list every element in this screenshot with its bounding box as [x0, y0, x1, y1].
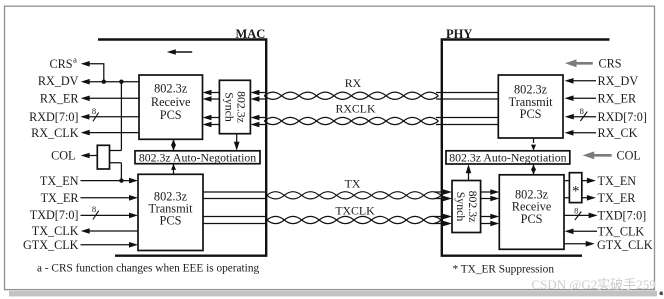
svg-text:RXD[7:0]: RXD[7:0]	[598, 110, 647, 124]
svg-text:TX_EN: TX_EN	[598, 174, 637, 188]
svg-text:*: *	[572, 184, 580, 200]
svg-text:802.3z: 802.3z	[154, 81, 188, 95]
svg-text:a - CRS function changes when: a - CRS function changes when EEE is ope…	[37, 262, 259, 274]
svg-text:MAC: MAC	[235, 27, 265, 41]
svg-text:GTX_CLK: GTX_CLK	[23, 238, 79, 252]
svg-text:TX: TX	[345, 177, 361, 191]
svg-text:TX_EN: TX_EN	[40, 174, 79, 188]
svg-text:TX_ER: TX_ER	[41, 191, 80, 205]
svg-text:TX_CLK: TX_CLK	[598, 225, 645, 239]
svg-text:TXCLK: TXCLK	[335, 204, 375, 218]
svg-text:CRS: CRS	[599, 56, 622, 70]
svg-text:RXD[7:0]: RXD[7:0]	[29, 110, 78, 124]
svg-text:802.3zSynch: 802.3zSynch	[454, 191, 480, 223]
svg-text:PCS: PCS	[160, 214, 182, 228]
svg-text:a: a	[73, 55, 77, 65]
svg-text:802.3z Auto-Negotiation: 802.3z Auto-Negotiation	[449, 150, 566, 164]
svg-text:CSDN @G2实破手259: CSDN @G2实破手259	[532, 277, 656, 292]
svg-text:TXD[7:0]: TXD[7:0]	[598, 209, 647, 223]
svg-text:RXCLK: RXCLK	[336, 102, 376, 116]
svg-text:802.3zSynch: 802.3zSynch	[222, 91, 248, 123]
svg-text:PCS: PCS	[521, 212, 543, 226]
svg-text:TX_ER: TX_ER	[598, 191, 637, 205]
svg-text:RX_DV: RX_DV	[38, 74, 79, 88]
svg-text:RX_ER: RX_ER	[40, 92, 79, 106]
svg-text:CRS: CRS	[49, 57, 72, 71]
svg-text:GTX_CLK: GTX_CLK	[597, 238, 653, 252]
svg-text:PCS: PCS	[160, 108, 182, 122]
svg-text:TXD[7:0]: TXD[7:0]	[30, 208, 79, 222]
svg-text:8: 8	[92, 204, 96, 214]
svg-text:RX_ER: RX_ER	[598, 91, 637, 105]
svg-text:8: 8	[92, 106, 96, 116]
svg-text:RX_DV: RX_DV	[598, 74, 639, 88]
svg-text:802.3z Auto-Negotiation: 802.3z Auto-Negotiation	[139, 150, 256, 164]
svg-text:COL: COL	[617, 149, 641, 163]
svg-text:RX_CK: RX_CK	[598, 126, 638, 140]
svg-text:* TX_ER Suppression: * TX_ER Suppression	[453, 264, 555, 276]
svg-text:8: 8	[574, 206, 578, 216]
svg-text:8: 8	[580, 106, 584, 116]
svg-text:RX: RX	[345, 76, 362, 90]
svg-text:COL: COL	[51, 149, 75, 163]
svg-text:PCS: PCS	[520, 107, 542, 121]
svg-text:TX_CLK: TX_CLK	[32, 224, 79, 238]
svg-text:RX_CLK: RX_CLK	[31, 126, 79, 140]
svg-text:PHY: PHY	[446, 27, 472, 41]
svg-text:Receive: Receive	[151, 95, 191, 109]
